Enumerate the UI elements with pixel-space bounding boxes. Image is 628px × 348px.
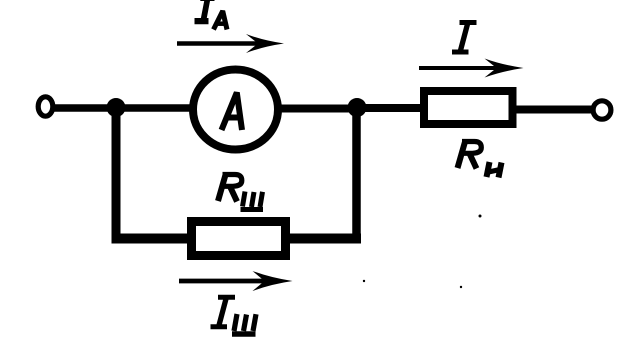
scan speck below right junction xyxy=(363,280,365,282)
label Iш : letter I xyxy=(211,295,236,330)
label Rн : letter R xyxy=(458,142,482,169)
scan speck right of Iш arrow xyxy=(460,286,462,288)
label IA : subscript A xyxy=(214,11,228,30)
arrow for current IA : shaft xyxy=(177,41,260,46)
wire: right junction to load resistor xyxy=(357,104,427,112)
wire: left junction to ammeter xyxy=(116,104,196,112)
left input terminal xyxy=(38,97,53,116)
wire: ammeter to right junction xyxy=(276,105,357,113)
scan speck near Rн xyxy=(479,215,482,218)
resistor Rн (load) box xyxy=(424,91,513,124)
ammeter U1 circle xyxy=(193,70,278,150)
label I (load current) xyxy=(452,20,477,55)
label IA : letter I (top clipped by image edge) xyxy=(195,0,215,24)
label Rш : letter R xyxy=(218,175,242,202)
resistor Rш (shunt) box xyxy=(192,222,286,256)
arrow for current Iш : shaft xyxy=(179,279,267,284)
node: left junction xyxy=(107,98,126,117)
label Rш : subscript ш xyxy=(241,192,264,210)
arrow for current I : head xyxy=(485,59,524,78)
wire: left vertical shunt branch xyxy=(112,107,121,239)
ammeter letter A xyxy=(222,93,243,131)
arrow for current I : shaft xyxy=(419,66,500,70)
right output terminal xyxy=(593,101,611,119)
wire: shunt bottom left segment xyxy=(112,234,197,244)
wire: left terminal to left junction xyxy=(53,104,116,112)
node: right junction xyxy=(348,98,367,117)
wire: load resistor to right terminal xyxy=(512,106,594,114)
label Rн : subscript н xyxy=(487,162,502,178)
wire: right vertical shunt branch xyxy=(352,107,361,239)
wire: shunt bottom right segment xyxy=(283,234,361,244)
label Iш : subscript ш xyxy=(232,314,256,334)
arrow for current Iш : head xyxy=(253,271,293,291)
arrow for current IA : head xyxy=(246,34,284,53)
